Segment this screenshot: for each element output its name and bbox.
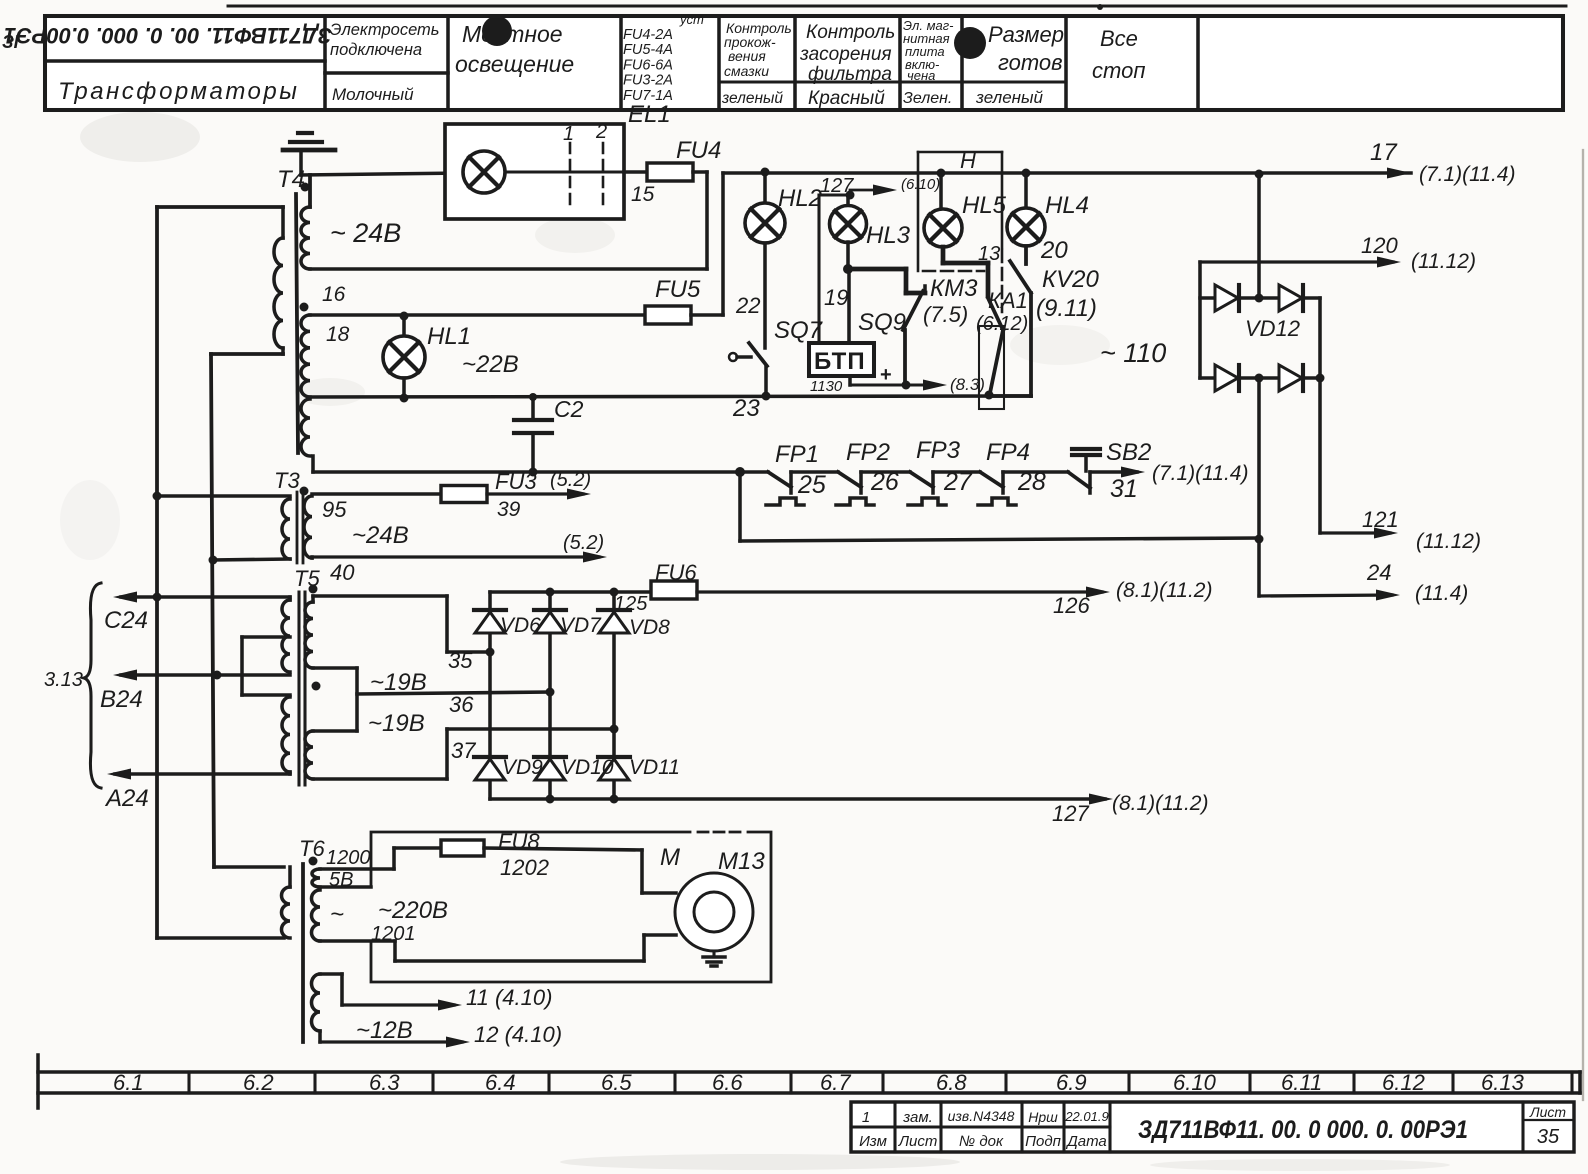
svg-text:1: 1 — [862, 1109, 870, 1126]
svg-text:SQ9: SQ9 — [858, 309, 906, 336]
svg-text:95: 95 — [322, 497, 347, 522]
svg-text:Н: Н — [960, 148, 976, 173]
svg-text:~19В: ~19В — [370, 669, 427, 696]
svg-text:М13: М13 — [718, 848, 765, 875]
svg-text:3.13: 3.13 — [44, 669, 83, 691]
svg-text:~ 110: ~ 110 — [1100, 338, 1166, 368]
svg-text:6.3: 6.3 — [369, 1070, 400, 1095]
svg-text:1: 1 — [563, 123, 574, 145]
svg-text:Молочный: Молочный — [332, 85, 414, 104]
svg-text:16: 16 — [322, 283, 346, 306]
svg-text:(7.1)(11.4): (7.1)(11.4) — [1419, 163, 1515, 186]
svg-text:36: 36 — [449, 692, 474, 717]
svg-text:Лист: Лист — [1529, 1104, 1566, 1120]
svg-text:HL3: HL3 — [866, 222, 911, 249]
svg-text:(7.1)(11.4): (7.1)(11.4) — [1152, 462, 1248, 485]
svg-text:С2: С2 — [554, 396, 584, 422]
svg-text:(11.4): (11.4) — [1415, 582, 1468, 605]
svg-text:23: 23 — [732, 395, 760, 422]
svg-text:27: 27 — [943, 468, 973, 496]
svg-text:М: М — [660, 844, 680, 871]
svg-text:КА1: КА1 — [988, 288, 1028, 313]
svg-text:(11.12): (11.12) — [1416, 530, 1481, 553]
svg-text:уст: уст — [679, 12, 704, 27]
svg-text:35: 35 — [1537, 1126, 1560, 1148]
svg-text:18: 18 — [326, 323, 350, 346]
svg-text:подключена: подключена — [330, 41, 422, 59]
svg-text:FU3-2А: FU3-2А — [623, 73, 673, 89]
svg-text:FU4-2А: FU4-2А — [623, 27, 673, 43]
svg-text:24: 24 — [1366, 560, 1391, 585]
svg-text:ЗГ: ЗГ — [2, 32, 26, 52]
svg-text:22.01.9: 22.01.9 — [1064, 1109, 1108, 1124]
svg-text:FU6-6А: FU6-6А — [623, 57, 673, 73]
svg-text:127: 127 — [1052, 801, 1089, 826]
svg-text:39: 39 — [497, 498, 521, 521]
svg-text:SB2: SB2 — [1106, 439, 1151, 466]
svg-text:FU5: FU5 — [655, 276, 701, 303]
svg-text:35: 35 — [448, 648, 473, 673]
svg-text:VD12: VD12 — [1245, 316, 1300, 341]
svg-text:25: 25 — [797, 471, 826, 499]
svg-text:~22В: ~22В — [462, 351, 519, 378]
svg-text:Изм: Изм — [859, 1133, 887, 1150]
svg-text:смазки: смазки — [724, 63, 769, 79]
svg-text:ЗД711ВФ11. 00. 0 000. 0. 00РЭ1: ЗД711ВФ11. 00. 0 000. 0. 00РЭ1 — [1138, 1116, 1468, 1144]
svg-text:6.4: 6.4 — [485, 1070, 516, 1095]
svg-text:19: 19 — [824, 285, 848, 310]
svg-text:Трансформаторы: Трансформаторы — [58, 78, 299, 105]
svg-text:6.1: 6.1 — [113, 1070, 144, 1095]
svg-text:HL5: HL5 — [962, 192, 1007, 219]
svg-text:FU5-4А: FU5-4А — [623, 42, 673, 58]
svg-text:освещение: освещение — [455, 51, 574, 77]
svg-text:вения: вения — [728, 48, 766, 64]
svg-text:1130: 1130 — [810, 378, 843, 395]
svg-text:С24: С24 — [104, 607, 148, 634]
svg-text:FU4: FU4 — [676, 137, 721, 164]
svg-text:~: ~ — [330, 901, 344, 928]
svg-text:11 (4.10): 11 (4.10) — [466, 985, 552, 1010]
svg-text:VD9: VD9 — [502, 756, 543, 779]
svg-text:КМ3: КМ3 — [930, 275, 978, 302]
svg-text:121: 121 — [1362, 507, 1399, 532]
svg-text:126: 126 — [1053, 593, 1090, 618]
svg-text:6.13: 6.13 — [1481, 1070, 1525, 1095]
svg-text:(9.11): (9.11) — [1036, 295, 1097, 322]
svg-text:6.8: 6.8 — [936, 1070, 967, 1095]
svg-text:37: 37 — [451, 738, 476, 763]
svg-text:FP4: FP4 — [986, 439, 1030, 466]
svg-text:Зелен.: Зелен. — [903, 90, 952, 107]
svg-text:FP3: FP3 — [916, 437, 961, 464]
svg-text:17: 17 — [1370, 139, 1398, 166]
svg-text:изв.N4348: изв.N4348 — [948, 1108, 1015, 1124]
svg-text:~24В: ~24В — [352, 522, 409, 549]
svg-text:6.5: 6.5 — [601, 1070, 632, 1095]
svg-text:Подп: Подп — [1025, 1133, 1061, 1150]
svg-text:Нрш: Нрш — [1028, 1109, 1058, 1125]
svg-text:засорения: засорения — [799, 44, 892, 65]
svg-text:HL1: HL1 — [427, 323, 471, 350]
svg-text:+: + — [880, 364, 892, 386]
svg-text:VD11: VD11 — [629, 756, 680, 779]
svg-text:6.12: 6.12 — [1382, 1070, 1425, 1095]
svg-text:Электросеть: Электросеть — [330, 21, 439, 39]
svg-text:№ док: № док — [959, 1133, 1004, 1150]
svg-text:FU6: FU6 — [655, 560, 697, 585]
svg-text:T4: T4 — [277, 166, 305, 193]
svg-text:(5.2): (5.2) — [550, 469, 591, 491]
svg-text:(8.1)(11.2): (8.1)(11.2) — [1116, 579, 1212, 602]
svg-text:22: 22 — [735, 293, 760, 318]
svg-text:6.11: 6.11 — [1281, 1070, 1322, 1095]
svg-text:(7.5): (7.5) — [923, 302, 968, 327]
svg-text:зеленый: зеленый — [975, 88, 1044, 107]
svg-text:Дата: Дата — [1065, 1133, 1107, 1150]
svg-text:~19В: ~19В — [368, 710, 425, 737]
svg-text:фильтра: фильтра — [808, 64, 892, 85]
svg-text:стоп: стоп — [1092, 58, 1145, 83]
svg-text:EL1: EL1 — [628, 101, 671, 128]
svg-text:~220В: ~220В — [378, 897, 448, 924]
svg-text:SQ7: SQ7 — [774, 317, 824, 344]
svg-text:Лист: Лист — [898, 1133, 938, 1150]
svg-text:Размер: Размер — [988, 22, 1064, 47]
svg-text:6.2: 6.2 — [243, 1070, 274, 1095]
svg-text:31: 31 — [1110, 475, 1138, 503]
svg-text:зеленый: зеленый — [721, 90, 783, 107]
svg-text:VD8: VD8 — [629, 616, 670, 639]
svg-text:120: 120 — [1361, 233, 1398, 258]
svg-text:26: 26 — [870, 468, 899, 496]
svg-text:20: 20 — [1040, 237, 1068, 264]
svg-text:зам.: зам. — [902, 1109, 933, 1126]
svg-text:VD7: VD7 — [560, 614, 602, 637]
svg-text:6.7: 6.7 — [820, 1070, 851, 1095]
svg-text:А24: А24 — [104, 785, 149, 812]
svg-text:1202: 1202 — [500, 855, 549, 880]
svg-text:FP1: FP1 — [775, 441, 819, 468]
svg-text:2: 2 — [595, 121, 607, 143]
svg-text:12 (4.10): 12 (4.10) — [474, 1022, 562, 1047]
svg-text:VD10: VD10 — [561, 756, 614, 779]
svg-text:VD6: VD6 — [500, 614, 541, 637]
svg-text:готов: готов — [998, 50, 1063, 75]
svg-text:T3: T3 — [274, 468, 300, 493]
svg-text:В24: В24 — [100, 686, 143, 713]
svg-text:чена: чена — [907, 68, 935, 83]
svg-text:FP2: FP2 — [846, 439, 890, 466]
svg-text:40: 40 — [330, 560, 355, 585]
svg-text:HL4: HL4 — [1045, 192, 1089, 219]
svg-text:Красный: Красный — [808, 88, 885, 109]
svg-text:~12В: ~12В — [356, 1017, 413, 1044]
svg-text:(6.10): (6.10) — [901, 176, 940, 193]
svg-text:1200: 1200 — [326, 847, 371, 869]
svg-text:ЗД711ВФ11. 00. 0. 000. 0.00РЭ1: ЗД711ВФ11. 00. 0. 000. 0.00РЭ1 — [4, 23, 332, 48]
svg-text:HL2: HL2 — [778, 185, 822, 212]
svg-text:КV20: КV20 — [1042, 266, 1100, 293]
svg-text:Все: Все — [1100, 26, 1138, 51]
svg-text:13: 13 — [978, 243, 1000, 265]
svg-text:Контроль: Контроль — [806, 22, 895, 43]
svg-text:6.9: 6.9 — [1056, 1070, 1087, 1095]
svg-text:FU3: FU3 — [495, 469, 537, 494]
svg-text:(8.1)(11.2): (8.1)(11.2) — [1112, 792, 1208, 815]
svg-text:~ 24В: ~ 24В — [330, 218, 401, 248]
svg-text:6.10: 6.10 — [1173, 1070, 1217, 1095]
svg-text:6.6: 6.6 — [712, 1070, 743, 1095]
svg-text:БТП: БТП — [814, 348, 866, 375]
svg-text:(5.2): (5.2) — [563, 532, 604, 554]
svg-text:(11.12): (11.12) — [1411, 250, 1476, 273]
svg-text:15: 15 — [631, 183, 655, 206]
svg-text:Местное: Местное — [462, 21, 563, 47]
svg-text:(6.12): (6.12) — [976, 313, 1028, 335]
